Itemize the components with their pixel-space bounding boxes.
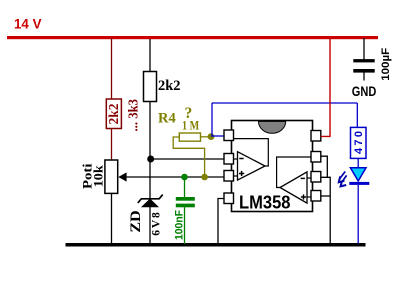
svg-text:14 V: 14 V: [14, 17, 42, 32]
svg-text:GND: GND: [352, 83, 377, 99]
resistor 470 body: [351, 127, 367, 158]
potentiometer Poti 10k body: [105, 160, 118, 193]
wire output dot to pin 1 (blue): [211, 135, 225, 137]
op-amp B minus: [301, 177, 305, 179]
svg-text:2k2: 2k2: [158, 78, 181, 94]
svg-text:2k2: 2k2: [106, 103, 121, 124]
LED cathode bar: [349, 182, 369, 185]
wire poti to ground: [111, 193, 113, 244]
LED light arrow 1: [339, 172, 345, 183]
wire dot to capacitor (green): [184, 177, 186, 198]
wire zener to ground: [149, 207, 151, 244]
pin 1: [224, 130, 234, 141]
wire blue vertical up: [211, 103, 213, 137]
wire LED to ground: [357, 185, 359, 244]
wire pin2 stub: [234, 158, 238, 160]
pin 4: [224, 193, 234, 204]
capacitor 100uF plates: [353, 59, 374, 73]
svg-text:1 M: 1 M: [182, 117, 199, 132]
svg-text:6V8: 6V8: [151, 212, 163, 236]
pin 8: [311, 131, 321, 142]
op-amp B plus: [301, 194, 306, 199]
svg-text:R4: R4: [158, 110, 176, 126]
op-amp A minus: [239, 158, 243, 160]
pin 2: [224, 154, 234, 165]
pin 7: [311, 152, 321, 163]
wire op-amp A output to pin1: [234, 139, 269, 166]
resistor 2k2 (dark red, left branch): [106, 99, 121, 129]
wire node to pin 2: [151, 158, 225, 160]
wire pin5 stub: [307, 196, 311, 198]
svg-text:10k: 10k: [91, 164, 106, 187]
wire bus to 2k2 (black branch): [149, 39, 151, 72]
wire R4 left terminal loop (olive): [173, 137, 204, 177]
wire blue down to 470: [356, 103, 358, 128]
zener diode ZD triangle: [142, 199, 158, 207]
wire 2k2 down to zener: [149, 102, 151, 200]
wire wiper to pin 3: [127, 176, 225, 178]
node olive dot on pin3 wire: [201, 174, 208, 181]
wire R4 right terminal (olive): [201, 136, 212, 138]
wire pin6 to ground vertical: [321, 177, 330, 244]
wire pin7 to pin6 connector: [321, 156, 328, 177]
wire blue top horizontal: [212, 102, 357, 104]
wire 470 to LED: [357, 158, 359, 168]
wire 2k2 to poti (dark red): [111, 129, 113, 161]
LED light arrow 2: [341, 175, 347, 186]
op-amp B triangle (mirrored): [280, 172, 307, 203]
wire 100uF stub to GND: [363, 73, 365, 81]
svg-text:100nF: 100nF: [173, 210, 185, 240]
op-amp A plus: [239, 171, 244, 176]
wire pin3 stub: [234, 175, 238, 177]
svg-text:100µF: 100µF: [380, 48, 392, 81]
wire op-amp B output to pin7: [277, 157, 311, 188]
resistor 2k2 (black, divider top): [144, 72, 157, 102]
svg-text:470: 470: [353, 131, 365, 154]
node green junction dot: [181, 174, 188, 181]
pin 3: [224, 171, 234, 182]
pin 5: [311, 191, 321, 202]
wire from bus to R poti branch (dark red): [111, 38, 113, 100]
resistor R4 body (olive): [179, 133, 200, 141]
svg-text:ZD: ZD: [128, 210, 144, 232]
op-amp A triangle: [238, 152, 266, 180]
wire 14V to pin 8 (red): [321, 39, 330, 136]
IC notch: [259, 121, 286, 133]
node olive dot at R4/output junction: [208, 133, 215, 140]
potentiometer wiper arrow: [118, 172, 126, 181]
LED D1 triangle: [350, 168, 366, 181]
svg-text:... 3k3: ... 3k3: [126, 99, 141, 132]
capacitor 100nF plates: [176, 197, 195, 207]
op-amp U1 LM358 body: [232, 121, 313, 212]
wire pin4 to ground: [218, 199, 224, 245]
node junction dot (divider node): [147, 156, 154, 163]
svg-text:LM358: LM358: [239, 192, 291, 212]
wire 14V supply bus: [7, 36, 378, 39]
zener diode ZD cathode bar: [138, 195, 163, 203]
wire capacitor to ground (green): [184, 207, 186, 244]
wire bus to 100uF: [363, 38, 365, 60]
wire pin5 to ground branch: [321, 195, 330, 197]
wire pin6 stub: [307, 177, 311, 179]
ground bus: [66, 243, 366, 247]
pin 6: [311, 172, 321, 183]
